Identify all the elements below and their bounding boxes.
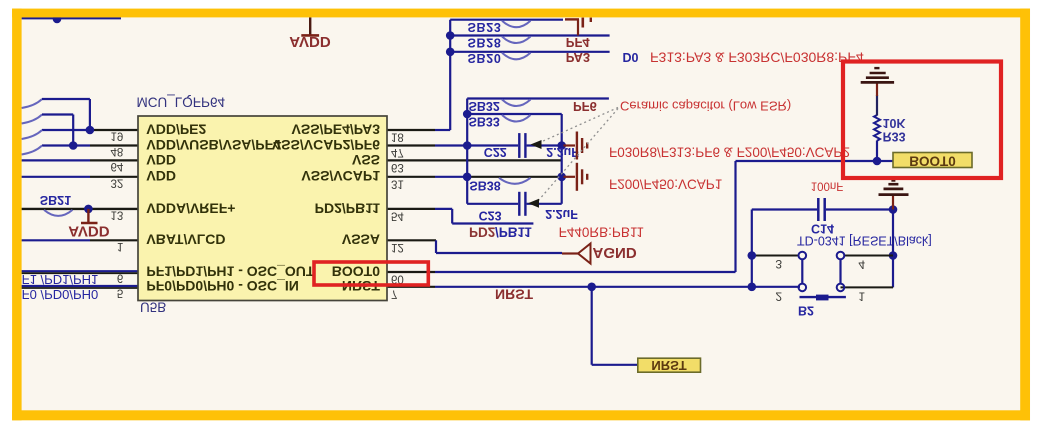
svg-text:PF4: PF4 (566, 35, 591, 50)
svg-text:PD2/PB11: PD2/PB11 (315, 200, 381, 216)
svg-text:F030R8/F313:PF6 & F200/F450:VC: F030R8/F313:PF6 & F200/F450:VCAP2 (609, 145, 850, 160)
svg-text:C22: C22 (484, 145, 507, 159)
svg-text:54: 54 (391, 209, 404, 221)
svg-text:1: 1 (858, 290, 865, 304)
svg-text:BOOT0: BOOT0 (332, 263, 380, 279)
svg-text:SB23: SB23 (468, 20, 502, 34)
svg-text:100nF: 100nF (811, 180, 844, 192)
svg-text:2.2uF: 2.2uF (546, 145, 579, 159)
svg-text:VBAT/VLCD: VBAT/VLCD (146, 232, 225, 248)
svg-text:C23: C23 (479, 208, 502, 222)
svg-text:PF6: PF6 (573, 99, 597, 114)
svg-text:63: 63 (391, 161, 404, 173)
svg-text:Ceramic capacitor (Low ESR): Ceramic capacitor (Low ESR) (620, 99, 791, 114)
svg-text:60: 60 (391, 273, 404, 285)
svg-text:3: 3 (775, 257, 782, 271)
svg-text:PD2: PD2 (469, 224, 495, 239)
svg-text:VSS/VCAP1: VSS/VCAP1 (301, 168, 380, 184)
svg-text:B2: B2 (798, 304, 814, 318)
svg-text:6: 6 (117, 272, 123, 284)
svg-text:VDD: VDD (146, 152, 176, 168)
svg-text:VDD: VDD (146, 168, 176, 184)
svg-text:4: 4 (858, 258, 865, 272)
svg-text:7: 7 (391, 287, 397, 299)
svg-text:31: 31 (391, 177, 404, 189)
svg-text:2: 2 (775, 290, 782, 304)
svg-text:SB20: SB20 (468, 51, 502, 65)
svg-text:1: 1 (117, 240, 123, 252)
svg-text:48: 48 (111, 145, 124, 157)
svg-text:PA3: PA3 (566, 50, 590, 65)
svg-text:10K: 10K (883, 116, 906, 130)
svg-text:18: 18 (391, 131, 404, 143)
svg-text:NRST: NRST (495, 287, 534, 303)
svg-text:VDDA/VREF+: VDDA/VREF+ (146, 200, 235, 216)
svg-text:VSS/PE4/PA3: VSS/PE4/PA3 (292, 121, 381, 137)
svg-text:AVDD: AVDD (68, 223, 110, 240)
svg-text:/PB11: /PB11 (495, 224, 532, 239)
svg-text:R33: R33 (883, 130, 906, 144)
svg-text:47: 47 (391, 146, 404, 158)
svg-text:U5B: U5B (140, 299, 166, 314)
svg-text:C14: C14 (811, 222, 834, 236)
svg-text:32: 32 (111, 176, 124, 188)
svg-text:PF0/PD0/PH0 - OSC_IN: PF0/PD0/PH0 - OSC_IN (146, 278, 299, 294)
svg-text:F313:PA3 & F303RC/F030R8:PF4: F313:PA3 & F303RC/F030R8:PF4 (650, 49, 864, 65)
svg-text:SB28: SB28 (468, 35, 502, 49)
svg-text:PF0 /PD0/PH0: PF0 /PD0/PH0 (13, 287, 98, 302)
svg-text:AGND: AGND (593, 244, 637, 261)
svg-text:VSS/VCAP2/PF6: VSS/VCAP2/PF6 (272, 137, 380, 153)
svg-text:AVDD: AVDD (289, 33, 331, 50)
svg-text:BOOT0: BOOT0 (909, 153, 956, 168)
svg-text:12: 12 (391, 241, 404, 253)
svg-text:TD-0341 [RESET/Black]: TD-0341 [RESET/Black] (797, 234, 932, 248)
svg-text:PF1 /PD1/PH1: PF1 /PD1/PH1 (13, 272, 98, 287)
svg-text:VSSA: VSSA (342, 232, 380, 248)
svg-text:2.2uF: 2.2uF (545, 207, 578, 221)
svg-text:PF1/PD1/PH1 - OSC_OUT: PF1/PD1/PH1 - OSC_OUT (146, 263, 314, 279)
svg-text:64: 64 (111, 160, 124, 172)
svg-text:D0: D0 (623, 50, 639, 64)
svg-text:5: 5 (117, 286, 123, 298)
svg-text:19: 19 (111, 130, 124, 142)
svg-text:SB32: SB32 (469, 99, 500, 113)
svg-text:13: 13 (111, 209, 124, 221)
svg-text:MCU_LQFP64: MCU_LQFP64 (137, 95, 226, 110)
svg-text:VDD/VUSB/VSA/PF4: VDD/VUSB/VSA/PF4 (146, 137, 281, 153)
svg-text:SB21: SB21 (40, 193, 71, 207)
svg-text:F200/F450:VCAP1: F200/F450:VCAP1 (609, 177, 722, 192)
svg-text:F440RB:PB11: F440RB:PB11 (559, 224, 644, 239)
svg-text:VDD/PE2: VDD/PE2 (146, 121, 206, 137)
svg-text:SB38: SB38 (469, 178, 500, 192)
svg-text:VSS: VSS (352, 152, 380, 168)
svg-text:NRST: NRST (651, 358, 686, 373)
svg-text:SB33: SB33 (469, 114, 500, 128)
